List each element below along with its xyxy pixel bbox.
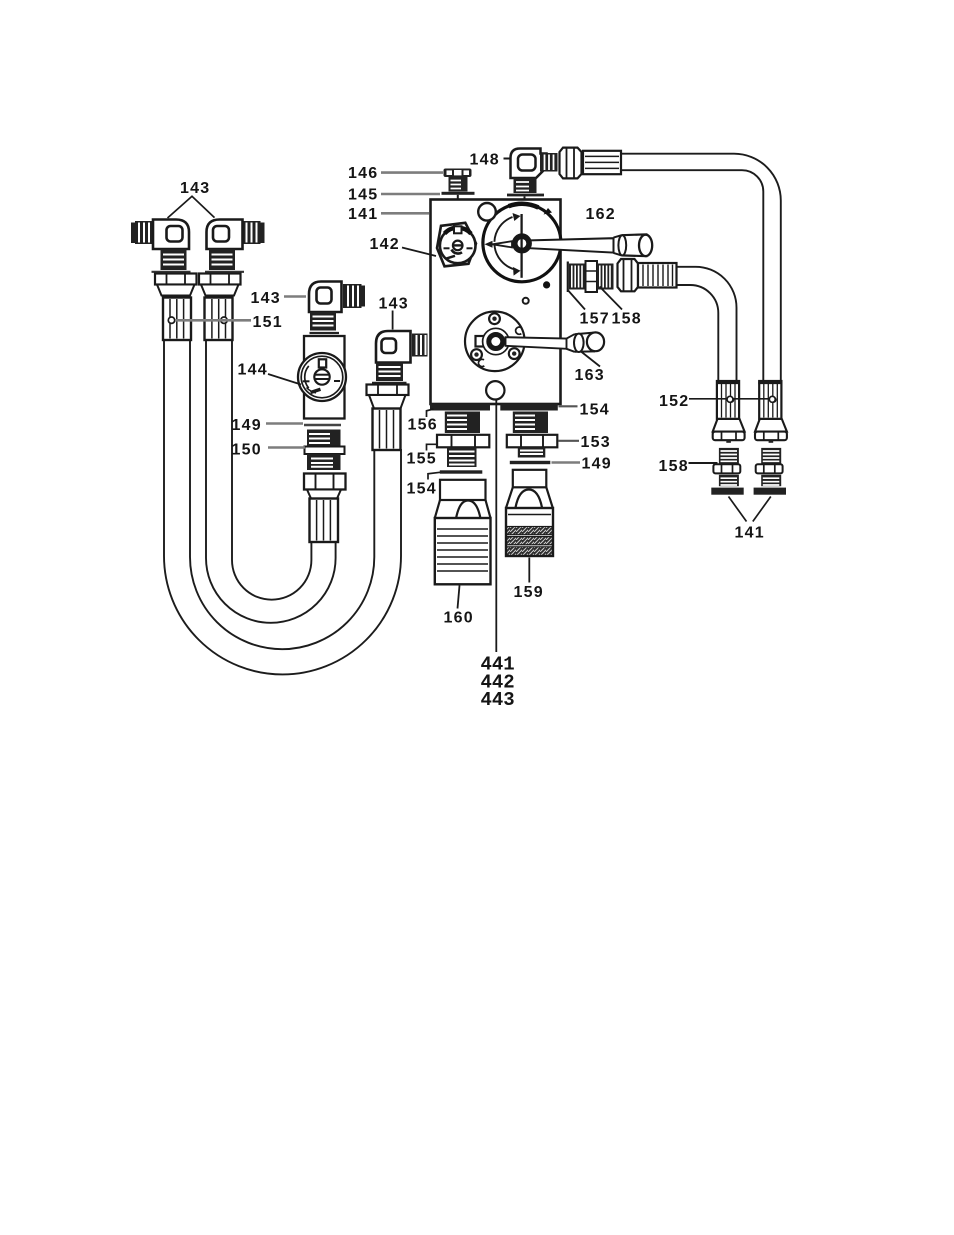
valve 144 dial face [298, 353, 346, 401]
ferrule on hose 1 [163, 298, 191, 341]
label 159 with leader [528, 558, 530, 583]
fitting 157 washer line [567, 262, 569, 293]
label 145 [381, 193, 440, 196]
elbow fitting 143d [367, 331, 428, 450]
C mark right [516, 327, 522, 334]
wire hose P inner edge [190, 341, 374, 649]
hex nut 155 [437, 435, 489, 448]
port flange right (154) [500, 404, 558, 411]
valve block 141 body [431, 200, 561, 405]
quick coupler 159 [506, 470, 553, 556]
svg-text:160: 160 [444, 610, 474, 627]
svg-text:145: 145 [348, 187, 378, 204]
lower threads right [518, 447, 546, 457]
dial 162 rotation arc top [494, 217, 512, 242]
svg-text:143: 143 [379, 296, 409, 313]
label 149 right [552, 461, 581, 464]
label 149 left [266, 422, 303, 425]
washer 149 right [510, 461, 551, 464]
quick coupler 160 [435, 480, 491, 585]
label 152 with leader [689, 398, 771, 400]
hex nut 153 [507, 435, 558, 448]
hex nut on hose 1 [199, 274, 241, 285]
svg-text:146: 146 [348, 165, 378, 182]
wire hose A bottom edge [621, 170, 763, 381]
label 154 left with bent leader [428, 472, 440, 479]
threads 156 [445, 412, 480, 434]
lever rod 163 [506, 337, 567, 349]
small circle on block top-left [478, 203, 496, 221]
wire hose Q inner edge [232, 341, 311, 600]
port flange left (154) [430, 404, 490, 411]
label 143 mid [284, 295, 306, 297]
washer 154 left [440, 470, 483, 473]
lower threads left [447, 447, 477, 467]
elbow fitting 148 [507, 149, 558, 200]
svg-text:141: 141 [348, 206, 378, 223]
dial 162 outer circle [483, 204, 561, 282]
crimp sleeve 152 (right) [754, 381, 787, 495]
ferrule on hose 3 [310, 499, 339, 543]
svg-text:148: 148 [470, 152, 500, 169]
label 156 with bent leader [427, 409, 434, 417]
svg-text:149: 149 [582, 456, 612, 473]
label 146 [381, 171, 443, 174]
svg-text:158: 158 [612, 311, 642, 328]
svg-text:142: 142 [370, 236, 400, 253]
label 141 bottom-right with V leader [729, 497, 747, 522]
plug 146 [444, 169, 472, 192]
rotary boss 163 circle [465, 312, 525, 372]
label 144 with leader [268, 374, 301, 385]
crimp sleeve 152 (left) [711, 381, 744, 495]
svg-text:143: 143 [251, 290, 281, 307]
label 154 right [559, 405, 578, 407]
svg-text:144: 144 [238, 362, 268, 379]
label 143 top-left with V leader [168, 196, 215, 218]
small screw circle on block [523, 298, 529, 304]
knob 142 center screw [453, 241, 463, 251]
knob 142 hex [437, 223, 476, 266]
hex nut under fitting 150 [304, 474, 346, 490]
knob 142 circle [440, 228, 476, 264]
svg-text:141: 141 [735, 525, 765, 542]
swivel nut 158 on hose B [618, 259, 639, 291]
svg-text:154: 154 [580, 402, 610, 419]
svg-text:157: 157 [580, 311, 610, 328]
svg-text:156: 156 [408, 417, 438, 434]
hub tab [476, 336, 489, 347]
svg-text:159: 159 [514, 584, 544, 601]
svg-text:143: 143 [180, 180, 210, 197]
wire hose Q outer edge (right elbow 143b to valve 144 leg, inner U loop) [206, 341, 336, 623]
fitting 150 [305, 430, 345, 471]
dial 162 pointer [485, 241, 493, 248]
label 142 [402, 248, 436, 257]
dial 162 rotation arc bottom [495, 245, 516, 269]
bolt lower-left [471, 349, 482, 360]
dial 162 marker triangle [544, 208, 553, 215]
ferrule on hose A [583, 151, 621, 174]
label 157 with leader [568, 291, 585, 310]
C mark bottom [478, 359, 484, 366]
label 155 with bent leader [427, 444, 437, 450]
elbow fitting 143a (top-left) [131, 220, 197, 341]
fitting 157 threads [569, 261, 614, 292]
hex nut on hose 1 [155, 274, 197, 285]
label 163 with leader [581, 352, 600, 367]
hub 163 [483, 328, 509, 354]
black dot on block [543, 281, 550, 288]
wire hose P outer edge (left elbow 143a to elbow 143d, outer U loop) [164, 341, 401, 674]
ferrule on hose B [638, 263, 677, 288]
svg-text:158: 158 [659, 458, 689, 475]
label 148 [504, 158, 512, 160]
swivel nut on hose A [560, 148, 582, 179]
label 160 with leader [458, 586, 460, 609]
dial 162 hub [515, 236, 529, 250]
label 151 [175, 319, 251, 322]
washer 145 [442, 192, 475, 195]
label 158 top with leader [600, 287, 623, 310]
dial 162 vertical axis line [520, 214, 522, 278]
label 150 [268, 446, 305, 449]
hex nut on hose 4 [367, 385, 409, 396]
ferrule on hose 4 [373, 409, 401, 451]
svg-text:155: 155 [407, 451, 437, 468]
lever rod of dial 162 [530, 238, 614, 252]
bolt lower-right [509, 348, 520, 359]
bolt top [489, 313, 500, 324]
circle at block bottom [486, 381, 504, 399]
label 143 right [392, 311, 394, 330]
ferrule on hose 1 [205, 298, 233, 341]
svg-text:152: 152 [659, 393, 689, 410]
lever cap 162 [614, 234, 653, 256]
wire hose B top edge (from fitting 158 to left crimp 152) [677, 267, 737, 381]
wire hose A top edge (from elbow 148 to right crimp 152) [621, 154, 781, 381]
svg-text:151: 151 [253, 314, 283, 331]
svg-text:149: 149 [232, 417, 262, 434]
fitting 158 (left) [719, 448, 739, 464]
svg-text:150: 150 [232, 442, 262, 459]
label 141 [381, 212, 429, 215]
svg-text:162: 162 [586, 206, 616, 223]
label 153 [559, 440, 580, 442]
fitting 158 (right) [761, 448, 781, 464]
washer 149 under valve 144 [304, 424, 341, 427]
elbow fitting 143b (mirrored twin) [199, 220, 265, 341]
label 158 bottom-right [689, 462, 718, 464]
svg-text:443: 443 [481, 689, 515, 711]
wire hose B bottom edge [677, 285, 719, 381]
svg-text:163: 163 [575, 367, 605, 384]
svg-text:153: 153 [581, 434, 611, 451]
lever cap 163 [567, 332, 605, 352]
elbow fitting 143c (above valve 144) [309, 282, 365, 334]
threads right [513, 412, 548, 434]
leader line 441/442/443 [495, 401, 497, 653]
valve 144 body [304, 336, 345, 419]
svg-text:154: 154 [407, 481, 437, 498]
